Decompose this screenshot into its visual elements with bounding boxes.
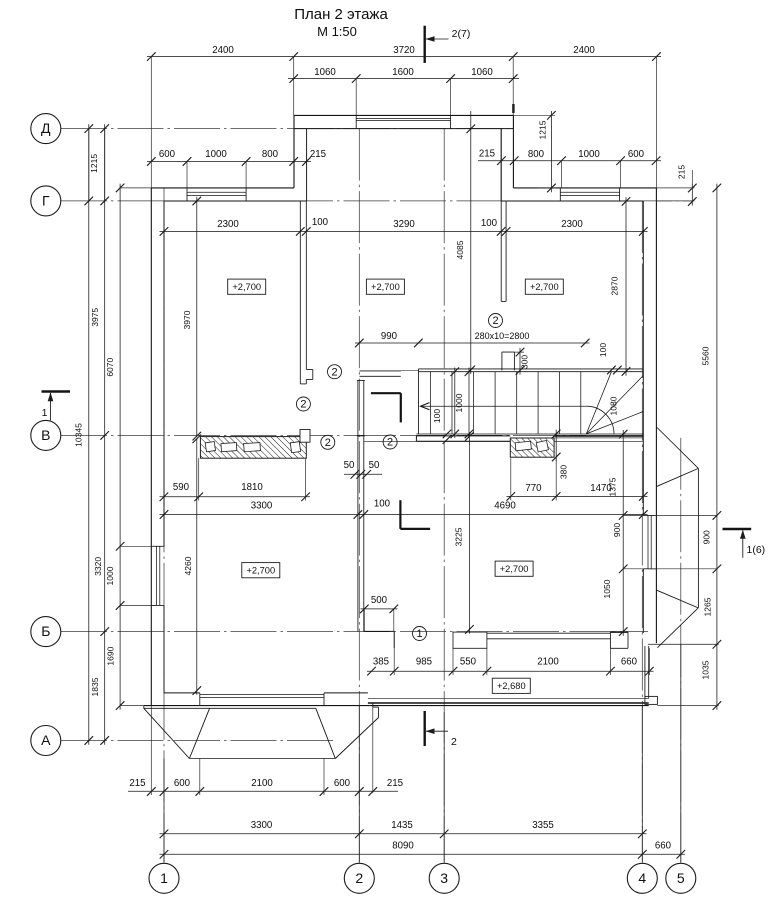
axis circle 5 — [666, 863, 696, 893]
left outer wall — [150, 188, 152, 706]
svg-text:385: 385 — [373, 657, 389, 668]
section mark 1(6) right — [723, 528, 752, 530]
window W6 in bottom wall — [199, 693, 201, 706]
svg-text:2400: 2400 — [573, 45, 595, 56]
dim 100 stair low band — [443, 430, 452, 439]
level label +2,700 — [228, 279, 266, 294]
solid extension lines to bottom dim rows — [163, 759, 165, 863]
svg-text:2: 2 — [300, 399, 306, 411]
svg-text:+2,700: +2,700 — [246, 566, 275, 576]
svg-text:600: 600 — [159, 149, 176, 160]
svg-text:3355: 3355 — [532, 820, 554, 831]
svg-text:1060: 1060 — [471, 67, 493, 78]
svg-text:1215: 1215 — [89, 154, 99, 173]
level label +2,700 — [242, 563, 280, 578]
door mark 2 — [383, 435, 397, 449]
svg-text:1215: 1215 — [538, 120, 548, 139]
svg-text:+2,680: +2,680 — [497, 681, 526, 691]
window W4 in bay front — [355, 115, 357, 128]
dim 1000 stair width — [454, 368, 456, 439]
svg-text:6070: 6070 — [105, 357, 115, 376]
svg-text:550: 550 — [460, 657, 477, 668]
svg-text:10345: 10345 — [74, 423, 84, 447]
svg-text:4: 4 — [638, 870, 646, 886]
balcony corner post — [645, 696, 658, 704]
axis2 thin wall (50/50) — [357, 381, 359, 632]
svg-text:1690: 1690 — [106, 646, 116, 665]
svg-text:100: 100 — [481, 218, 498, 229]
axis circle В — [31, 420, 61, 450]
level label +2,700 — [495, 561, 533, 576]
svg-text:2: 2 — [325, 437, 331, 449]
stair left edge — [418, 369, 420, 434]
svg-text:1835: 1835 — [90, 677, 100, 696]
dim row 600-1000-800-215 left — [147, 161, 311, 163]
svg-text:4085: 4085 — [455, 240, 465, 259]
svg-text:600: 600 — [174, 778, 191, 789]
svg-text:+2,700: +2,700 — [371, 282, 400, 292]
svg-text:1050: 1050 — [602, 579, 612, 598]
svg-text:100: 100 — [598, 343, 608, 357]
dim 1215 right of bay — [550, 111, 552, 192]
porch right wing diagonal — [335, 718, 378, 759]
axis line 5 — [680, 438, 682, 863]
svg-text:1000: 1000 — [205, 149, 227, 160]
bottom outer wall — [144, 705, 649, 707]
svg-text:215: 215 — [129, 778, 145, 789]
svg-text:8090: 8090 — [392, 841, 414, 852]
svg-text:2300: 2300 — [217, 219, 239, 230]
svg-text:+2,700: +2,700 — [500, 564, 529, 574]
dim row 215-600-2100-600-215 (porch) — [128, 790, 398, 792]
svg-text:1: 1 — [416, 628, 422, 640]
axis circle Д — [31, 114, 61, 144]
axis circle 1 — [149, 863, 179, 893]
svg-text:3720: 3720 — [393, 45, 415, 56]
dim 5560-900-1265-1035 column — [716, 184, 718, 710]
svg-text:А: А — [41, 732, 51, 748]
window W2 in G wall left — [186, 188, 188, 201]
svg-text:100: 100 — [374, 499, 391, 510]
window W5 in right wall — [643, 514, 656, 516]
svg-text:3: 3 — [440, 870, 448, 886]
svg-text:215: 215 — [677, 165, 687, 179]
dim 100 ticks near stair right — [607, 366, 616, 375]
svg-text:985: 985 — [416, 657, 432, 668]
svg-text:Г: Г — [42, 192, 50, 208]
porch right wing — [372, 703, 374, 707]
axis line G — [61, 200, 693, 202]
section mark 2(7) top — [424, 26, 426, 63]
dim row 590-1810 — [160, 496, 311, 498]
axis line B — [61, 631, 648, 633]
ext line porch right edge — [372, 707, 374, 793]
svg-text:1375: 1375 — [608, 477, 618, 496]
hatched vent wall block A (left, on axis V) — [200, 437, 306, 459]
stair enclosure top wall — [419, 368, 644, 370]
door mark 2 — [489, 314, 503, 328]
svg-text:215: 215 — [387, 778, 403, 789]
bay window outer walls — [294, 114, 513, 116]
svg-text:2100: 2100 — [537, 657, 559, 668]
dim row 1060-1600-1060 — [288, 78, 519, 80]
svg-text:3320: 3320 — [93, 557, 103, 576]
svg-text:Д: Д — [41, 120, 51, 136]
svg-text:215: 215 — [479, 149, 495, 160]
dim row 2300-100-3290-100-2300 — [160, 230, 648, 232]
dim 500 — [361, 608, 398, 610]
porch diagonal left-outer — [144, 708, 190, 758]
window W1 left wall — [151, 545, 164, 547]
svg-text:500: 500 — [371, 595, 388, 606]
axis circle Б — [31, 617, 61, 647]
svg-text:800: 800 — [528, 149, 545, 160]
svg-text:2870: 2870 — [610, 276, 620, 295]
pier wall right of balcony window — [610, 631, 628, 633]
svg-text:1080: 1080 — [609, 396, 619, 415]
pilaster at V wall left door — [300, 430, 310, 443]
svg-text:2: 2 — [331, 366, 337, 378]
porch diagonal right — [316, 708, 336, 758]
svg-text:2: 2 — [451, 736, 457, 748]
dim 300 chimney notch — [519, 348, 521, 375]
stair risers — [429, 372, 431, 434]
dim row 990 / 280x10=2800 — [355, 342, 418, 344]
dim 50/50 axis2 wall — [344, 473, 382, 475]
axis line A — [61, 740, 336, 742]
stair walk line arc — [586, 406, 614, 434]
porch diagonal left — [189, 708, 209, 758]
svg-text:3970: 3970 — [182, 310, 192, 329]
top wall on axis G left part — [151, 187, 294, 189]
svg-text:50: 50 — [344, 460, 355, 471]
svg-text:2100: 2100 — [251, 778, 273, 789]
svg-text:660: 660 — [655, 841, 672, 852]
svg-text:3290: 3290 — [393, 219, 415, 230]
svg-text:1435: 1435 — [391, 820, 413, 831]
wall corner at B (hall exit) — [364, 630, 394, 632]
door mark 2 — [328, 365, 342, 379]
dim row 8090-660 — [160, 853, 686, 855]
axis line 4 — [641, 201, 643, 863]
porch roof outline — [143, 706, 145, 709]
axis circle 2 — [344, 863, 374, 893]
window W3 in G wall right — [559, 188, 561, 201]
dim row 3300-1435-3355 — [160, 833, 647, 835]
hall north wall (corridor) — [360, 370, 401, 372]
section mark 1 left — [42, 390, 71, 392]
right outer wall — [655, 188, 657, 643]
dim 3225 column — [468, 432, 470, 633]
svg-text:800: 800 — [262, 149, 279, 160]
dim 380 vertical — [555, 430, 557, 462]
stair walk line with arrow — [422, 405, 587, 407]
pier wall left of balcony window — [453, 632, 487, 648]
axis line 3 — [443, 129, 445, 863]
interior thin wall left (x~300-306) — [299, 201, 301, 384]
svg-text:Б: Б — [41, 623, 50, 639]
level label +2,680 — [492, 678, 530, 693]
svg-text:100: 100 — [312, 217, 329, 228]
axis circle Г — [31, 186, 61, 216]
level label +2,700 — [366, 279, 404, 294]
dim 2870 right room — [625, 197, 627, 375]
dim 1215 top-left column — [88, 129, 90, 201]
thick door jamb L-mark at hall south — [399, 500, 401, 529]
balcony right wall — [644, 646, 646, 698]
axis line V — [61, 434, 586, 436]
svg-text:1000: 1000 — [578, 149, 600, 160]
thick tick above bay right wall — [512, 104, 514, 113]
dim row 385-985-550-2100-660 — [367, 670, 654, 672]
dim 1375-900-1050 column — [622, 430, 624, 636]
svg-text:1810: 1810 — [241, 482, 263, 493]
svg-text:4690: 4690 — [494, 501, 516, 512]
dim 3970/4260 column — [196, 197, 198, 436]
svg-text:2300: 2300 — [561, 219, 583, 230]
dim column 1215/3975/3320/1835 — [104, 124, 106, 745]
svg-text:100: 100 — [432, 409, 442, 423]
dim 215 far right — [691, 184, 693, 206]
svg-text:50: 50 — [369, 460, 380, 471]
svg-text:+2,700: +2,700 — [530, 282, 559, 292]
svg-text:1(6): 1(6) — [747, 544, 766, 556]
svg-text:3300: 3300 — [251, 820, 273, 831]
top wall on axis G right part — [513, 187, 656, 189]
axis line D — [61, 128, 513, 130]
dim row 215-800-1000-600 right — [478, 160, 661, 162]
svg-text:1000: 1000 — [454, 393, 464, 412]
svg-text:1060: 1060 — [314, 67, 336, 78]
svg-text:5: 5 — [677, 870, 685, 886]
svg-text:В: В — [41, 427, 50, 443]
svg-text:770: 770 — [525, 483, 542, 494]
svg-text:1: 1 — [42, 407, 48, 419]
hatched vent wall block B (under stair) — [510, 438, 554, 457]
svg-text:2400: 2400 — [212, 45, 234, 56]
svg-text:2: 2 — [387, 437, 393, 449]
svg-text:2: 2 — [492, 315, 498, 327]
dim row 2400-3720-2400 — [147, 56, 661, 58]
axis circle А — [31, 726, 61, 756]
svg-text:2: 2 — [355, 870, 363, 886]
svg-text:4260: 4260 — [183, 556, 193, 575]
thick door jamb L-mark at stair entry — [371, 392, 401, 394]
svg-text:3975: 3975 — [90, 308, 100, 327]
svg-text:2(7): 2(7) — [452, 28, 471, 40]
svg-text:900: 900 — [612, 523, 622, 537]
axis circle 4 — [627, 863, 657, 893]
svg-text:М 1:50: М 1:50 — [317, 24, 357, 39]
svg-text:300: 300 — [520, 355, 530, 369]
axis circle 3 — [429, 863, 459, 893]
svg-text:1600: 1600 — [392, 67, 414, 78]
dim 4085 / 215 line — [470, 111, 472, 374]
svg-text:990: 990 — [381, 331, 398, 342]
axis line 1 — [163, 188, 165, 863]
upper right roof triangle — [657, 428, 698, 469]
stair bottom edge / V wall — [416, 433, 643, 435]
chimney notch on stair wall — [501, 352, 503, 370]
svg-text:1000: 1000 — [105, 566, 115, 585]
svg-text:+2,700: +2,700 — [232, 282, 261, 292]
dim row 770-1470 — [507, 495, 648, 497]
svg-text:660: 660 — [621, 657, 638, 668]
door mark 2 — [321, 435, 335, 449]
apex vertical line — [697, 468, 699, 608]
level label +2,700 — [525, 279, 563, 294]
svg-text:1: 1 — [160, 870, 168, 886]
svg-text:380: 380 — [559, 465, 569, 479]
balcony window (2100) — [487, 632, 611, 634]
svg-text:900: 900 — [702, 530, 712, 544]
interior thin wall right (x~501-506) — [500, 129, 502, 302]
svg-text:215: 215 — [310, 149, 326, 160]
dim column 6070/1000/1690 — [119, 184, 121, 710]
dim row 3300-100-4690 — [160, 514, 648, 516]
balcony slab bottom lines — [368, 697, 649, 699]
svg-text:План 2 этажа: План 2 этажа — [294, 6, 388, 23]
svg-text:1265: 1265 — [703, 597, 713, 616]
svg-text:3225: 3225 — [454, 527, 464, 546]
door mark 1 — [413, 627, 427, 641]
stair winder fan lines — [586, 372, 611, 434]
svg-text:600: 600 — [628, 149, 645, 160]
svg-text:590: 590 — [173, 482, 190, 493]
svg-text:3300: 3300 — [251, 501, 273, 512]
door mark 2 — [296, 397, 310, 411]
svg-text:280x10=2800: 280x10=2800 — [475, 331, 530, 341]
svg-text:1035: 1035 — [701, 660, 711, 679]
dim 10345 column — [88, 124, 90, 745]
lower right roof triangle — [657, 590, 698, 608]
svg-text:5560: 5560 — [701, 346, 711, 365]
axis line 2 — [358, 129, 360, 863]
section mark 2 bottom — [424, 711, 426, 746]
svg-text:600: 600 — [334, 778, 351, 789]
